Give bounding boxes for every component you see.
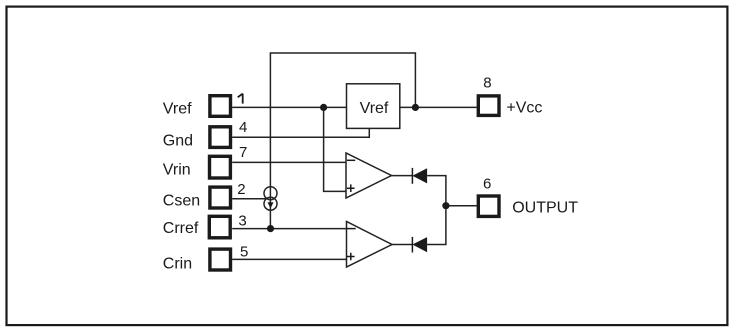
svg-text:6: 6 [483, 175, 491, 192]
svg-text:2: 2 [237, 181, 245, 198]
junction node A on pin1 wire [320, 104, 327, 111]
diode D1 cathode bar [411, 168, 413, 184]
wire diode D2 to output node [427, 206, 446, 245]
wire Gnd to Vref box bottom [232, 128, 369, 137]
wire node A feed to op-amp U1 non-inverting input [324, 107, 346, 191]
svg-text:8: 8 [483, 74, 491, 91]
pin box 6 OUTPUT [478, 196, 499, 216]
pin box 8 +Vcc [478, 96, 499, 116]
op-amp U2 minus [347, 228, 356, 230]
wire op-amp U2 output to diode D2 [392, 244, 413, 246]
wire output node to pin 6 [446, 205, 477, 207]
svg-text:Crin: Crin [163, 255, 192, 272]
wire pin1 Vref to Vref box [232, 106, 346, 108]
wire Crref to op-amp U2 inverting input [232, 228, 346, 230]
wire Vref box output to pin 8 [400, 106, 477, 108]
op-amp U2 [347, 222, 393, 268]
pin box 1 Vref [210, 96, 231, 117]
svg-text:Gnd: Gnd [163, 133, 193, 150]
pin number 1 [238, 94, 243, 104]
wire Vrin to op-amp U1 inverting input [232, 161, 346, 163]
diode D2 [412, 237, 427, 252]
wire Crin to op-amp U2 non-inverting input [232, 258, 346, 260]
op-amp U1 minus [347, 159, 355, 161]
Vref regulator box [347, 84, 400, 129]
svg-text:Vref: Vref [163, 101, 192, 118]
svg-text:+Vcc: +Vcc [506, 99, 542, 116]
junction node Vcc [412, 104, 419, 111]
svg-text:3: 3 [238, 212, 246, 229]
op-amp U1 [346, 153, 392, 198]
svg-text:Csen: Csen [163, 193, 200, 210]
svg-text:Crref: Crref [163, 220, 199, 237]
svg-text:Vref: Vref [360, 100, 389, 117]
pin box 3 Crref [209, 216, 230, 238]
pin box 7 Vrin [210, 156, 231, 178]
current source arrow [268, 202, 274, 208]
diode D1 [412, 168, 427, 183]
svg-text:Vrin: Vrin [163, 162, 191, 179]
op-amp U2 plus [347, 253, 355, 261]
svg-text:5: 5 [240, 243, 248, 260]
op-amp U1 plus [347, 184, 355, 192]
junction node output [442, 202, 449, 209]
svg-text:OUTPUT: OUTPUT [512, 199, 578, 216]
wire Csen to current source [232, 198, 267, 200]
junction node Crref [267, 225, 274, 232]
current source I1 circles [264, 187, 277, 200]
svg-text:4: 4 [239, 119, 247, 136]
pin box 2 Csen [210, 187, 231, 208]
wire diode D1 to output node [427, 176, 446, 206]
wire op-amp U1 output to diode D1 [391, 175, 412, 177]
diode D2 cathode bar [411, 237, 413, 253]
pin box 5 Crin [210, 249, 231, 270]
svg-text:7: 7 [239, 144, 247, 161]
wire top feedback loop [270, 53, 415, 229]
pin box 4 Gnd [210, 127, 231, 148]
